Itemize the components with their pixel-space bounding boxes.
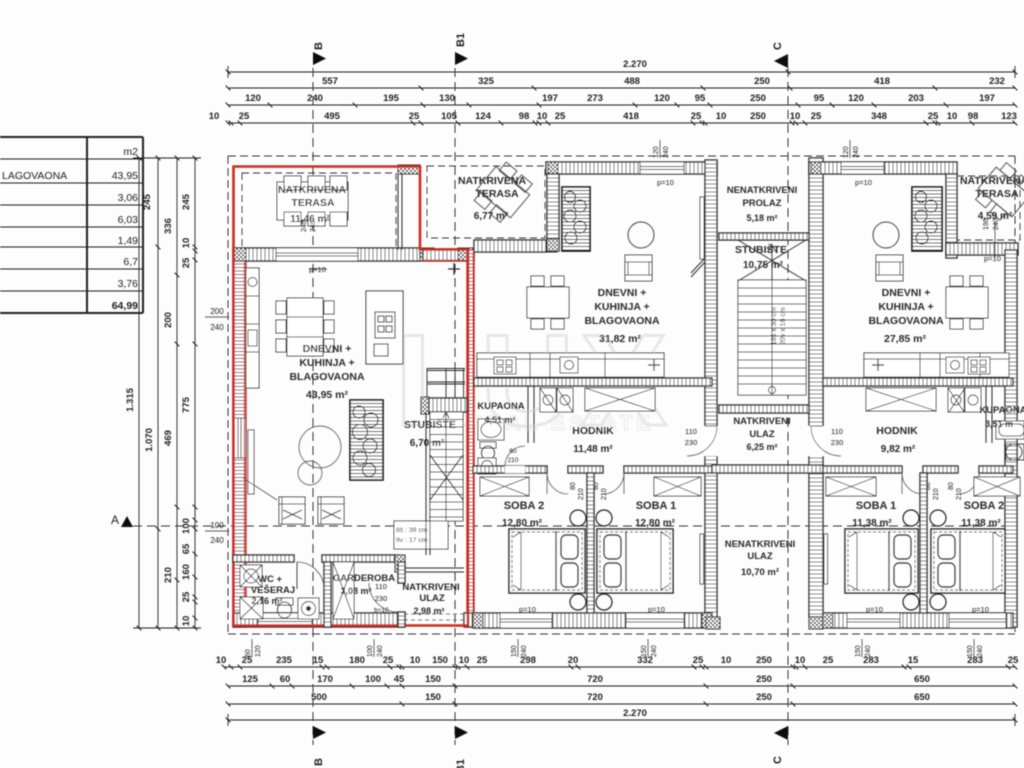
grid line B: [312, 68, 314, 745]
grid marker B1 top: [455, 52, 468, 65]
wall unit3 left / prolaz right: [809, 158, 823, 617]
svg-text:10: 10: [216, 655, 227, 666]
svg-text:KUHINJA +: KUHINJA +: [878, 301, 933, 313]
wall u2 wall hs c: [624, 466, 712, 473]
svg-text:336: 336: [163, 218, 174, 234]
svg-text:BLAGOVAONA: BLAGOVAONA: [289, 371, 364, 383]
plus sign unit1: [448, 263, 460, 275]
svg-text:C: C: [772, 42, 784, 50]
wall u1 rooms top b: [322, 555, 398, 562]
svg-text:HODNIK: HODNIK: [876, 425, 918, 437]
kitchen counter unit3: [864, 353, 1009, 377]
watermark LUX REAL ESTATE: [395, 307, 673, 453]
svg-text:3,06: 3,06: [118, 192, 139, 204]
svg-text:DNEVNI +: DNEVNI +: [882, 287, 931, 299]
sofa unit1 b: [318, 497, 344, 524]
svg-text:240: 240: [977, 645, 984, 657]
svg-text:418: 418: [874, 76, 890, 87]
wall stub left: [426, 412, 430, 555]
svg-text:10,75 m²: 10,75 m²: [743, 260, 784, 271]
svg-text:720: 720: [587, 674, 603, 685]
svg-text:150: 150: [425, 692, 441, 703]
svg-text:150: 150: [641, 645, 648, 657]
svg-text:SOBA 2: SOBA 2: [964, 500, 1005, 512]
wall kupaona unit2: [528, 386, 534, 443]
svg-text:NATKRIVENI: NATKRIVENI: [402, 582, 459, 593]
grid line C: [787, 68, 789, 745]
terrace 1 dashed boundary: [242, 173, 396, 248]
svg-text:1.070: 1.070: [144, 428, 155, 452]
svg-text:80: 80: [948, 482, 955, 490]
svg-text:25: 25: [383, 655, 394, 666]
svg-text:2.270: 2.270: [623, 59, 647, 70]
svg-text:25: 25: [691, 111, 702, 122]
svg-text:60: 60: [280, 674, 291, 685]
wall terrace1 right: [398, 173, 402, 250]
svg-text:12,80 m²: 12,80 m²: [502, 518, 543, 529]
svg-text:6,7: 6,7: [123, 256, 138, 268]
wall unit2 band: [474, 240, 546, 252]
wall unit1 band to stub: [423, 249, 474, 261]
svg-text:9v : 17 cm: 9v : 17 cm: [396, 537, 428, 544]
wardrobe unit2: [585, 388, 655, 411]
svg-text:197: 197: [542, 93, 558, 104]
wall unit1 left exterior: [233, 250, 246, 627]
svg-text:180: 180: [349, 655, 365, 666]
svg-text:NENATKRIVENI: NENATKRIVENI: [727, 185, 798, 196]
svg-text:3,08 m²: 3,08 m²: [340, 586, 371, 596]
svg-text:557: 557: [322, 76, 338, 87]
closet soba1: [654, 477, 701, 496]
wall block corner u1 tr: [458, 248, 474, 261]
svg-text:p=10: p=10: [648, 605, 665, 614]
svg-text:10: 10: [537, 111, 548, 122]
svg-text:ULAZ: ULAZ: [749, 429, 775, 440]
svg-text:NATKRIVENA: NATKRIVENA: [458, 175, 526, 187]
dimension row top 3: [226, 103, 1018, 108]
svg-text:4,51 m²: 4,51 m²: [484, 415, 515, 425]
grid line A: [133, 525, 1015, 527]
svg-text:245: 245: [181, 193, 192, 210]
svg-text:120: 120: [843, 146, 850, 158]
wall block terrace1 corner block: [398, 165, 420, 174]
wall u3 soba wall: [920, 473, 927, 618]
small rotated dims: [653, 146, 670, 158]
svg-text:240: 240: [377, 645, 384, 657]
window u2 window s2: [500, 613, 552, 628]
svg-text:240: 240: [651, 645, 658, 657]
wall unit1 bottom: [233, 613, 404, 627]
stair box label: [394, 521, 448, 549]
svg-text:250: 250: [750, 93, 766, 104]
svg-text:3,51 m: 3,51 m: [985, 419, 1013, 429]
wardrobe unit3: [866, 388, 936, 411]
svg-text:BLAGOVAONA: BLAGOVAONA: [584, 315, 659, 327]
svg-text:10: 10: [947, 111, 958, 122]
svg-text:150: 150: [432, 655, 448, 666]
opening label 100/240: [210, 521, 224, 545]
svg-text:240: 240: [210, 536, 224, 545]
wall unit2 mid wall: [474, 378, 712, 386]
svg-text:B: B: [313, 42, 325, 50]
svg-text:720: 720: [587, 692, 603, 703]
window unit2 top window: [640, 162, 684, 174]
kitchen island unit1: [366, 291, 403, 364]
svg-text:TERASA: TERASA: [475, 188, 519, 200]
svg-text:NATKRIVENI: NATKRIVENI: [733, 416, 790, 427]
svg-text:1.315: 1.315: [125, 387, 136, 411]
wall unit2 left: [547, 174, 559, 251]
svg-text:11,48 m²: 11,48 m²: [573, 444, 613, 455]
svg-text:100: 100: [365, 674, 381, 685]
closet u3 soba2: [974, 477, 1020, 496]
svg-text:5,18 m²: 5,18 m²: [746, 213, 777, 223]
grid marker B1 bottom: [455, 726, 468, 739]
svg-text:15: 15: [908, 655, 919, 666]
stools unit3: [903, 510, 946, 610]
dimension row bottom 4 (2.270): [226, 714, 1018, 726]
wall u2 soba wall: [587, 473, 594, 618]
svg-text:6,70 m²: 6,70 m²: [410, 438, 445, 449]
svg-text:210: 210: [956, 488, 963, 500]
wall unit2 right / prolaz left: [705, 160, 717, 617]
svg-text:B1: B1: [455, 33, 467, 47]
svg-text:p=10: p=10: [309, 265, 326, 274]
svg-text:B1: B1: [455, 759, 467, 768]
svg-text:240: 240: [853, 146, 860, 158]
svg-text:25: 25: [409, 111, 420, 122]
svg-text:STUBIŠTE: STUBIŠTE: [735, 243, 787, 256]
svg-text:100: 100: [367, 645, 374, 657]
svg-text:203: 203: [908, 93, 924, 104]
svg-text:650: 650: [914, 674, 930, 685]
svg-text:210: 210: [508, 457, 519, 464]
wall unit1 terrace sill: [233, 248, 420, 261]
svg-text:10: 10: [459, 655, 470, 666]
svg-text:45: 45: [394, 674, 405, 685]
dining table unit1: [276, 298, 334, 356]
entrance step dashed: [404, 614, 464, 620]
svg-text:650: 650: [914, 692, 930, 703]
door label 110/230 u1: [375, 582, 388, 603]
closet u3 soba1: [826, 477, 876, 496]
ulaz top line: [405, 568, 464, 572]
door label 110/230 u2: [685, 427, 698, 447]
posts: [700, 534, 704, 584]
svg-text:95: 95: [695, 93, 706, 104]
svg-text:10,70 m²: 10,70 m²: [741, 567, 779, 578]
wall u1 wall wc-gard: [324, 562, 331, 627]
svg-text:25: 25: [477, 655, 488, 666]
svg-text:230: 230: [831, 438, 844, 447]
wall stubiste mid sill: [719, 405, 809, 413]
terrace 1 table: [277, 176, 348, 226]
svg-text:ULAZ: ULAZ: [419, 593, 445, 604]
svg-text:235: 235: [276, 655, 293, 666]
sink unit3: [1006, 444, 1024, 460]
door arcs sobas u3: [902, 473, 923, 494]
svg-text:125: 125: [242, 674, 259, 685]
svg-text:p=10: p=10: [855, 178, 872, 187]
svg-text:VEŠERAJ: VEŠERAJ: [251, 584, 295, 596]
svg-text:9,82 m²: 9,82 m²: [881, 444, 916, 455]
door arcs sobas u2: [547, 473, 568, 494]
wall u1 wall gard-ulaz b: [398, 612, 405, 627]
svg-text:1,49: 1,49: [118, 235, 139, 247]
wall block u2 bl: [473, 613, 483, 628]
red unit outline: [234, 167, 469, 626]
wall unit2 bottom: [473, 613, 712, 628]
sofa unit1 a: [279, 497, 305, 524]
window unit1 bottom window: [258, 613, 312, 627]
window unit3 top window: [841, 162, 884, 174]
svg-text:NATKRIVENA: NATKRIVENA: [960, 175, 1024, 187]
svg-text:DNEVNI +: DNEVNI +: [598, 287, 647, 299]
building outline dashed: [228, 156, 1015, 634]
svg-text:200: 200: [163, 312, 174, 328]
svg-text:469: 469: [163, 430, 174, 446]
svg-text:10: 10: [410, 655, 421, 666]
wall terrace3 left wall: [946, 174, 957, 258]
dimension row top 1 (2.270): [226, 66, 1018, 78]
wall block u2 lb: [547, 239, 559, 251]
svg-text:232: 232: [989, 76, 1005, 87]
svg-text:240: 240: [521, 645, 528, 657]
svg-text:240: 240: [307, 93, 323, 104]
window u2 window s1: [626, 613, 684, 628]
grid line B1: [454, 68, 456, 745]
svg-text:325: 325: [478, 76, 495, 87]
window unit1 left window: [233, 418, 246, 458]
svg-text:3,76: 3,76: [118, 278, 139, 290]
svg-text:25: 25: [823, 655, 834, 666]
wall block u3 bl: [823, 613, 833, 628]
svg-text:348: 348: [871, 111, 887, 122]
svg-text:230: 230: [685, 438, 698, 447]
svg-text:25: 25: [181, 257, 192, 268]
washer unit1: [240, 597, 263, 619]
wall unit3 top: [809, 162, 957, 174]
svg-text:124: 124: [475, 111, 492, 122]
kitchen counter left: [246, 268, 259, 388]
armchair unit2: [625, 255, 652, 281]
svg-text:25: 25: [811, 111, 822, 122]
dining unit3: [946, 276, 988, 329]
wall u3 wall hs a: [823, 466, 902, 473]
armchair unit3: [876, 255, 903, 281]
svg-text:b=10: b=10: [374, 607, 389, 614]
kitchen counter unit2: [477, 353, 664, 377]
wall u2 wall hs a: [473, 466, 547, 473]
stair landing lines: [427, 368, 465, 412]
svg-text:10: 10: [790, 111, 801, 122]
svg-text:250: 250: [756, 692, 772, 703]
svg-text:LAGOVAONA: LAGOVAONA: [2, 170, 67, 182]
svg-text:TERASA: TERASA: [975, 188, 1019, 200]
svg-text:43,95 m²: 43,95 m²: [306, 389, 349, 401]
wall block mid br: [809, 617, 823, 629]
svg-text:25: 25: [239, 111, 250, 122]
svg-text:120: 120: [654, 93, 670, 104]
stairs middle: [738, 240, 806, 395]
wall terrace3 sill: [946, 243, 1018, 255]
svg-text:25: 25: [181, 591, 192, 602]
window u3 window s1: [847, 613, 900, 628]
wall block u2 tr: [707, 162, 717, 174]
bed unit2 soba1: [597, 529, 673, 593]
svg-text:STUBIŠTE: STUBIŠTE: [404, 418, 456, 431]
svg-text:PROLAZ: PROLAZ: [742, 198, 781, 209]
window u3 window s2: [949, 613, 1006, 628]
svg-text:HODNIK: HODNIK: [572, 425, 614, 437]
washers unit2: [540, 388, 573, 412]
svg-text:KUPAONA: KUPAONA: [979, 405, 1024, 416]
svg-text:170: 170: [317, 674, 333, 685]
wall u3 wall hs c: [979, 466, 1013, 473]
wall block u3 tl: [811, 162, 821, 174]
dimension row bottom 1: [222, 665, 1018, 670]
svg-text:95: 95: [814, 93, 825, 104]
svg-text:SOBA 1: SOBA 1: [636, 500, 677, 512]
svg-text:C: C: [772, 756, 784, 764]
decor circles: [298, 426, 341, 485]
wall kupaona unit3: [986, 386, 992, 443]
table circle unit3: [873, 222, 899, 248]
washer kupaona unit2: [478, 458, 496, 474]
svg-text:110: 110: [685, 427, 697, 436]
grid marker B bottom: [313, 726, 326, 739]
door label 110/230 u3: [831, 427, 844, 447]
dimension column left: [133, 156, 201, 631]
svg-text:10: 10: [721, 655, 732, 666]
svg-text:150: 150: [967, 645, 974, 657]
svg-text:18š x 30 cm: 18š x 30 cm: [771, 307, 778, 345]
wall u3 wall hs b: [923, 466, 958, 473]
svg-text:m2: m2: [123, 146, 138, 158]
wall block u2 tl: [548, 162, 558, 174]
svg-text:130: 130: [439, 93, 455, 104]
angled wall unit2: [691, 258, 705, 277]
svg-text:TERASA: TERASA: [291, 197, 335, 209]
svg-text:200: 200: [210, 307, 224, 316]
svg-text:31,82 m²: 31,82 m²: [599, 333, 642, 345]
garderoba closet: [333, 562, 354, 619]
stools unit2: [570, 510, 612, 610]
door arc kupaona u2: [505, 466, 525, 473]
svg-text:p=10: p=10: [984, 254, 1001, 263]
svg-text:2.270: 2.270: [623, 708, 647, 719]
svg-text:240: 240: [210, 323, 224, 332]
dimension row bottom 2: [226, 684, 1018, 689]
terrace 2 table rotated: [470, 159, 536, 226]
svg-text:A: A: [111, 513, 119, 527]
svg-text:6,77 m²: 6,77 m²: [474, 211, 509, 222]
toilet unit1: [276, 598, 293, 618]
window unit1 south window: [276, 248, 358, 261]
door gap unit3 entry: [808, 426, 824, 456]
svg-text:20: 20: [568, 655, 579, 666]
svg-text:775: 775: [181, 396, 192, 413]
toilet unit2: [480, 442, 496, 460]
svg-text:10: 10: [181, 238, 192, 249]
wall unit2 top: [546, 162, 717, 174]
svg-text:10: 10: [209, 111, 220, 122]
door gap unit2 entry: [704, 426, 718, 456]
wall stubiste top: [429, 398, 467, 412]
bed unit3 soba1: [845, 529, 918, 593]
svg-text:BLAGOVAONA: BLAGOVAONA: [868, 315, 943, 327]
bed unit2 soba2: [509, 529, 585, 593]
basin unit1: [298, 598, 319, 619]
svg-text:98: 98: [968, 111, 979, 122]
radiator unit2: [700, 197, 704, 259]
svg-text:20v x 16 cm: 20v x 16 cm: [780, 307, 787, 345]
closet soba2: [480, 477, 529, 496]
svg-text:60: 60: [245, 649, 252, 657]
svg-text:120: 120: [653, 146, 660, 158]
washers unit3: [948, 388, 981, 412]
tub unit3: [996, 421, 1024, 439]
svg-text:418: 418: [623, 111, 639, 122]
dimension row top 2: [226, 86, 1018, 91]
wall block corner u1 terr: [420, 248, 434, 261]
svg-text:10: 10: [795, 655, 806, 666]
svg-text:25: 25: [928, 111, 939, 122]
svg-text:250: 250: [756, 655, 772, 666]
dimension row top 4: [226, 121, 1018, 126]
wall u1 wall gard-ulaz a: [398, 562, 405, 583]
tv shelf: [248, 430, 254, 494]
svg-text:10: 10: [716, 111, 727, 122]
svg-text:210: 210: [578, 488, 585, 500]
svg-text:8š : 39 cm: 8š : 39 cm: [396, 527, 428, 534]
svg-text:KUPAONA: KUPAONA: [477, 401, 524, 412]
svg-text:6,25 m²: 6,25 m²: [746, 442, 777, 452]
svg-text:10: 10: [181, 616, 192, 627]
grid marker C top: [774, 54, 788, 68]
svg-text:p=10: p=10: [657, 178, 674, 187]
stairs unit1: [430, 412, 463, 521]
door arc wc: [297, 562, 324, 589]
svg-text:240: 240: [865, 645, 872, 657]
svg-text:25: 25: [555, 111, 566, 122]
wall block corner t2b: [546, 240, 557, 252]
dimension row bottom 3: [226, 702, 1018, 707]
wall unit3 bottom: [823, 613, 1013, 628]
svg-text:25: 25: [1008, 655, 1019, 666]
svg-text:210: 210: [933, 488, 940, 500]
svg-text:210: 210: [163, 567, 174, 583]
svg-text:4,59 m²: 4,59 m²: [978, 211, 1013, 222]
svg-text:230: 230: [375, 594, 388, 603]
wall unit3 right: [1005, 250, 1017, 627]
wall block corner u1 tl: [233, 248, 246, 261]
svg-text:150: 150: [511, 645, 518, 657]
svg-text:p=10: p=10: [866, 605, 883, 614]
svg-text:15: 15: [313, 655, 324, 666]
svg-text:197: 197: [979, 93, 995, 104]
grid marker C bottom: [774, 726, 788, 740]
svg-text:110: 110: [831, 427, 843, 436]
wall block u2 br: [702, 613, 712, 628]
svg-text:150: 150: [425, 674, 441, 685]
wall block ulaz corner: [395, 555, 405, 572]
svg-text:25: 25: [693, 655, 704, 666]
svg-text:NATKRIVENA: NATKRIVENA: [278, 184, 346, 196]
svg-text:123: 123: [1001, 111, 1017, 122]
svg-text:WC +: WC +: [258, 574, 282, 585]
svg-text:120: 120: [848, 93, 864, 104]
